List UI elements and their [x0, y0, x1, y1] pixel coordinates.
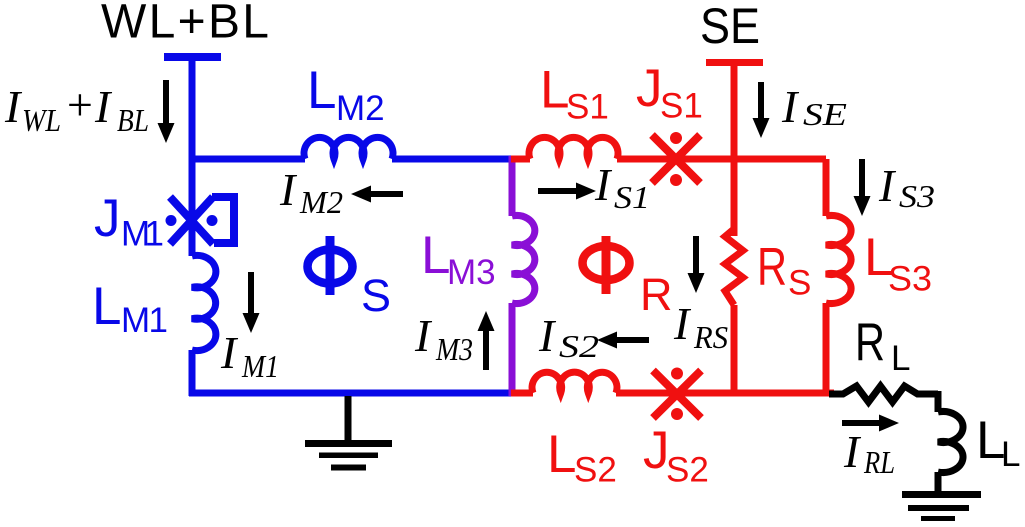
svg-text:S2: S2	[666, 451, 709, 490]
svg-text:L: L	[92, 277, 121, 336]
wire bottom rail blue	[189, 390, 513, 397]
svg-text:M1: M1	[241, 348, 279, 384]
svg-text:S: S	[361, 270, 391, 321]
resistor RL	[829, 386, 938, 402]
svg-text:+: +	[64, 79, 95, 130]
svg-text:L: L	[547, 425, 576, 484]
svg-text:M1: M1	[121, 301, 168, 340]
current arrow IS3	[859, 159, 865, 197]
svg-text:I: I	[279, 164, 298, 215]
svg-text:I: I	[878, 160, 897, 211]
current arrow IS2	[616, 337, 649, 343]
junction JM1	[170, 197, 234, 244]
resistor RS	[725, 229, 743, 305]
svg-text:R: R	[640, 269, 673, 320]
current arrow IRL	[842, 420, 880, 426]
svg-text:I: I	[414, 310, 433, 361]
svg-text:S3: S3	[899, 178, 935, 214]
wire top rail blue	[189, 156, 513, 163]
svg-text:S2: S2	[559, 328, 599, 364]
svg-text:L: L	[1001, 435, 1020, 474]
svg-text:SE: SE	[803, 96, 848, 132]
inductor LM2	[304, 137, 393, 159]
current arrow IM3	[483, 330, 489, 370]
inductor LS1	[529, 137, 618, 159]
svg-text:I: I	[94, 81, 113, 132]
wire LL to ground	[935, 472, 942, 492]
svg-text:L: L	[891, 339, 910, 378]
junction JS1	[652, 135, 700, 183]
svg-text:L: L	[307, 61, 336, 120]
flux label PhiS	[308, 250, 353, 284]
inductor LL	[938, 412, 963, 473]
svg-text:S1: S1	[614, 179, 650, 215]
svg-text:J: J	[636, 59, 663, 118]
svg-text:I: I	[594, 159, 613, 210]
wire left vertical (WL+BL down to bottom rail)	[189, 55, 196, 396]
current arrow IS1	[538, 188, 577, 194]
wire bottom rail red	[511, 390, 826, 397]
current arrow IM2	[370, 191, 403, 197]
inductor LS2	[532, 372, 617, 393]
inductor LS3	[826, 216, 851, 304]
svg-text:J: J	[94, 189, 121, 248]
svg-text:I: I	[4, 81, 23, 132]
svg-text:I: I	[220, 327, 239, 378]
inductor LM1	[192, 255, 216, 350]
svg-text:M2: M2	[336, 89, 385, 128]
svg-text:M2: M2	[299, 184, 343, 220]
junction JS2	[653, 371, 701, 419]
ground center	[345, 396, 352, 441]
current arrow IWL+IBL	[163, 80, 169, 124]
svg-text:R: R	[757, 238, 787, 297]
inductor LM3	[512, 216, 535, 304]
svg-text:S1: S1	[660, 87, 703, 126]
svg-text:I: I	[843, 426, 862, 477]
wire LM3 vertical purple	[509, 156, 516, 396]
svg-text:M1: M1	[121, 215, 164, 254]
svg-text:S1: S1	[566, 88, 609, 127]
svg-text:WL: WL	[22, 102, 61, 138]
flux label PhiR	[583, 246, 630, 280]
svg-text:WL+BL: WL+BL	[101, 0, 269, 49]
current arrow ISE	[758, 82, 764, 119]
terminal SE	[706, 59, 763, 66]
svg-text:I: I	[538, 310, 557, 361]
terminal WL+BL	[164, 53, 221, 61]
current arrow IM1	[248, 272, 254, 314]
svg-text:M3: M3	[447, 253, 496, 292]
svg-text:SE: SE	[700, 0, 760, 54]
ground right	[902, 491, 981, 498]
svg-text:S: S	[788, 264, 811, 303]
svg-text:M3: M3	[435, 331, 473, 367]
svg-text:S2: S2	[574, 451, 617, 490]
svg-text:I: I	[781, 81, 800, 132]
svg-text:S3: S3	[888, 260, 932, 299]
svg-text:RS: RS	[693, 319, 728, 355]
current arrow IRS	[693, 236, 699, 274]
svg-text:I: I	[673, 298, 692, 349]
wire top rail red	[511, 156, 826, 163]
svg-text:BL: BL	[117, 102, 149, 138]
svg-text:R: R	[855, 313, 885, 372]
wire right branch red	[823, 159, 835, 393]
svg-text:RL: RL	[863, 444, 895, 480]
wire RL to LL	[935, 391, 942, 412]
wire SE vertical red	[731, 61, 738, 396]
